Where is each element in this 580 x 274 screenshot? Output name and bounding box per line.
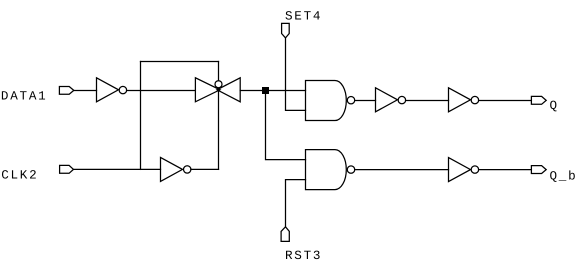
port Q bbox=[531, 96, 546, 104]
inverter I5 bbox=[449, 158, 479, 182]
port SET4 bbox=[282, 23, 290, 38]
inverter I1 (DATA1 input buffer) bbox=[97, 78, 127, 102]
wire NAND2 output to inverter I5 bbox=[355, 169, 449, 171]
wire inverter I1 output to transmission gate bbox=[127, 90, 196, 92]
inverter I2 (CLK inverter) bbox=[161, 157, 191, 181]
wire transmission gate to junction bbox=[240, 90, 305, 92]
wire down to transmission gate top bubble bbox=[218, 62, 220, 82]
transmission gate TG1 bbox=[195, 78, 240, 102]
NAND gate U1 (set NAND) bbox=[306, 81, 355, 121]
wire SET4 to NAND1 input bbox=[286, 38, 306, 111]
wire CLK vertical up (box left edge) bbox=[140, 62, 142, 170]
port Q_b bbox=[531, 166, 546, 174]
wire NAND1 output to inverter I3 bbox=[355, 100, 376, 102]
svg-text:CLK2: CLK2 bbox=[1, 169, 38, 183]
wire box top edge bbox=[141, 61, 219, 63]
svg-text:RST3: RST3 bbox=[285, 249, 322, 263]
wire junction down to NAND2 input bbox=[266, 94, 306, 160]
NAND gate U2 (reset NAND) bbox=[306, 150, 355, 190]
inverter I4 bbox=[449, 88, 479, 112]
wire CLK2 port to inverter I2 bbox=[74, 168, 161, 170]
wire inverter I5 to port Q_b bbox=[479, 169, 532, 171]
svg-text:Q: Q bbox=[550, 99, 559, 113]
wire inverter I2 output bbox=[191, 168, 219, 170]
port DATA1 bbox=[59, 87, 73, 95]
svg-text:DATA1: DATA1 bbox=[1, 89, 48, 103]
svg-text:Q_b: Q_b bbox=[550, 169, 578, 183]
port CLK2 bbox=[60, 165, 74, 173]
junction node (solder square) bbox=[262, 87, 269, 94]
wire inverter I3 to inverter I4 bbox=[406, 100, 449, 102]
wire up to transmission gate bottom bbox=[218, 88, 220, 169]
wire RST3 to NAND2 input bbox=[286, 180, 306, 227]
svg-text:SET4: SET4 bbox=[285, 10, 322, 24]
port RST3 bbox=[281, 227, 289, 242]
wire DATA1 port to inverter I1 bbox=[74, 90, 97, 92]
wire inverter I4 to port Q bbox=[479, 100, 532, 102]
inverter I3 bbox=[376, 88, 406, 112]
